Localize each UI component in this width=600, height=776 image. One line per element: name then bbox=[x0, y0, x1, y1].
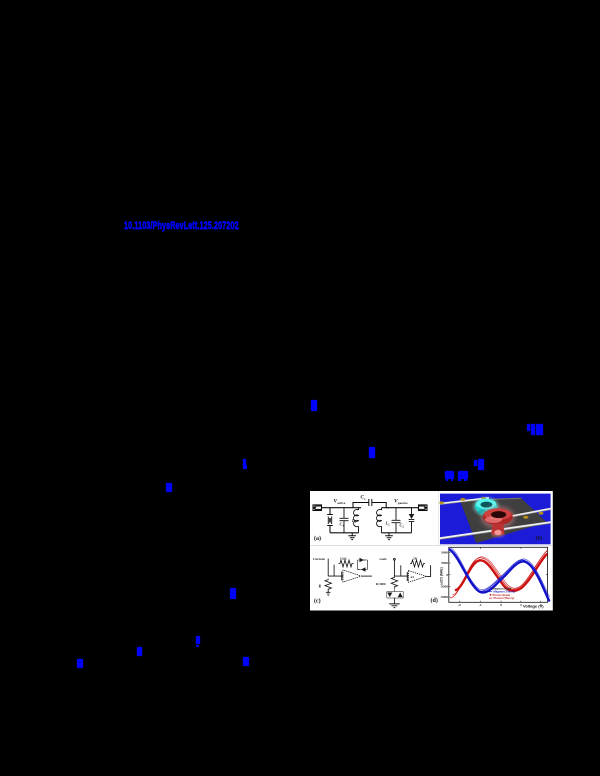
inductor L1 bbox=[353, 507, 358, 532]
citation mark 7 bbox=[243, 657, 249, 666]
label L1 bbox=[351, 518, 357, 524]
label Rf1 bbox=[340, 556, 347, 560]
svg-text:x2: x2 bbox=[410, 575, 414, 579]
svg-text:Voltage (V): Voltage (V) bbox=[523, 603, 544, 608]
blue fit line bbox=[449, 547, 550, 599]
DOI link bbox=[124, 221, 239, 232]
x tick labels bbox=[458, 602, 542, 606]
label C2 bbox=[399, 522, 404, 528]
wire input right bbox=[394, 560, 408, 576]
wire to ground right bbox=[393, 598, 395, 604]
citation mark 3 bbox=[166, 483, 172, 492]
citation mark 1 bbox=[243, 459, 247, 469]
capacitor C1 bbox=[339, 507, 348, 532]
capacitor C2 bbox=[391, 507, 400, 532]
svg-text:2R: 2R bbox=[413, 556, 418, 560]
chip substrate bbox=[459, 497, 546, 542]
microstrip line A bbox=[439, 497, 488, 504]
y ticks bbox=[448, 552, 547, 597]
cyan torus glow bbox=[473, 497, 499, 516]
label (d) bbox=[430, 597, 437, 604]
svg-text:1 kΩ: 1 kΩ bbox=[340, 556, 347, 560]
label C1 bbox=[339, 521, 344, 527]
svg-text:-1: -1 bbox=[478, 602, 481, 606]
svg-text:R/1000: R/1000 bbox=[376, 581, 386, 585]
label (b) bbox=[535, 534, 542, 541]
label Gain bbox=[379, 556, 386, 560]
ground G2 bbox=[385, 532, 393, 539]
svg-text:5000: 5000 bbox=[441, 550, 448, 554]
citation mark 3b bbox=[230, 588, 236, 599]
citation mark 100 bbox=[527, 424, 530, 431]
label L2 bbox=[384, 520, 390, 526]
cyan torus body bbox=[475, 498, 497, 515]
ground G4 bbox=[389, 603, 400, 607]
wire stub c1 bbox=[333, 564, 335, 575]
wire output right up bbox=[426, 565, 430, 576]
x ticks bbox=[459, 547, 540, 602]
svg-text:Photon (Theory): Photon (Theory) bbox=[493, 596, 514, 600]
resistor R1 bbox=[325, 578, 331, 590]
resistor R2 bbox=[391, 576, 397, 588]
x axis label bbox=[523, 603, 544, 608]
svg-text:-2: -2 bbox=[458, 602, 461, 606]
panel (b) white frame bbox=[438, 491, 552, 546]
bottom wire right bbox=[381, 531, 411, 533]
panel (a) background bbox=[310, 491, 438, 546]
op-amp U2 bbox=[407, 570, 426, 582]
node N2 bbox=[393, 558, 395, 560]
microstrip line C bbox=[439, 522, 550, 539]
label Cc bbox=[360, 495, 366, 500]
panel (d) background bbox=[431, 545, 553, 610]
svg-text:passive: passive bbox=[397, 500, 407, 504]
crystal X1 bbox=[327, 514, 333, 525]
port P2 bbox=[418, 504, 427, 510]
svg-text:Gain: Gain bbox=[379, 556, 386, 560]
svg-text:active: active bbox=[337, 500, 346, 504]
solder blob 3 bbox=[481, 497, 485, 500]
op-amp U1 bbox=[341, 570, 361, 582]
svg-text:(c): (c) bbox=[314, 597, 321, 604]
label R2 bbox=[376, 581, 386, 585]
diode pair D2 bbox=[357, 557, 367, 571]
port P1 bbox=[313, 504, 322, 510]
label Rf2 bbox=[413, 556, 418, 560]
wire Cc to right circuit bbox=[386, 506, 389, 508]
legend bbox=[489, 586, 515, 600]
y axis label bbox=[439, 567, 443, 584]
wire top left bbox=[321, 506, 361, 508]
svg-text:(a): (a) bbox=[314, 535, 321, 542]
red torus glow bbox=[480, 506, 514, 529]
solder blob 4 bbox=[523, 515, 528, 518]
citation mark 16 bbox=[445, 471, 454, 479]
label R1 bbox=[318, 584, 321, 588]
label (c) bbox=[314, 597, 321, 604]
wire output c bbox=[361, 575, 372, 577]
svg-text:-5000: -5000 bbox=[440, 595, 448, 599]
wire stub c2 bbox=[399, 565, 401, 576]
bottom wire left bbox=[330, 531, 359, 533]
ground G1 bbox=[348, 532, 356, 539]
diode pair D3 bbox=[386, 586, 402, 598]
label x2 bbox=[410, 575, 414, 579]
red fit line bbox=[450, 550, 548, 598]
left branch wire bbox=[329, 507, 331, 532]
svg-text:ω/2π (MHz): ω/2π (MHz) bbox=[439, 567, 443, 584]
chip top edge highlight bbox=[459, 497, 521, 500]
resistor Rf2 bbox=[410, 560, 425, 567]
panel (b) blue background bbox=[440, 493, 551, 544]
citation mark 6b bbox=[137, 647, 142, 657]
resistor Rf1 bbox=[338, 560, 353, 567]
red data curve bbox=[456, 554, 547, 590]
label Current bbox=[313, 556, 326, 560]
microstrip line B bbox=[493, 508, 551, 520]
blue data curve bbox=[449, 549, 549, 600]
plot frame bbox=[448, 547, 547, 602]
svg-text:Current: Current bbox=[313, 556, 326, 560]
solder blob 2 bbox=[460, 498, 465, 501]
citation mark 6 bbox=[311, 400, 316, 411]
FIGURE bbox=[310, 491, 553, 611]
panel (c) background bbox=[310, 545, 431, 610]
y tick labels bbox=[440, 550, 448, 599]
red torus body bbox=[482, 508, 512, 537]
label V_passive bbox=[394, 498, 408, 504]
citation mark 10 bbox=[474, 460, 477, 466]
wire top right bbox=[381, 506, 420, 508]
wire input left bbox=[328, 558, 343, 576]
label (a) bbox=[314, 535, 321, 542]
citation mark 21 bbox=[458, 471, 468, 479]
ground G3 bbox=[325, 589, 330, 595]
capacitor Cc bbox=[368, 499, 385, 508]
citation mark 5 bbox=[369, 447, 375, 458]
inductor L2 bbox=[376, 507, 381, 532]
varactor D1 bbox=[408, 507, 414, 532]
svg-text:(d): (d) bbox=[430, 597, 437, 604]
citation mark 4 bbox=[196, 636, 200, 644]
solder blob 1 bbox=[439, 501, 443, 504]
svg-text:(b): (b) bbox=[535, 534, 542, 541]
label V_active bbox=[333, 498, 345, 504]
citation mark 6c bbox=[77, 659, 82, 668]
svg-text:2500: 2500 bbox=[441, 561, 448, 565]
solder blob 5 bbox=[538, 511, 543, 514]
node V_active riser bbox=[353, 502, 369, 507]
